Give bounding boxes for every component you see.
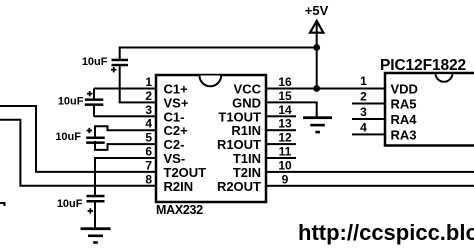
svg-text:R2IN: R2IN [164,179,194,194]
wire stub at left edge (cut off) [0,203,5,206]
U1 pin name C1- [164,109,185,124]
U1 pin name VCC [234,82,262,97]
svg-text:R1IN: R1IN [231,123,261,138]
pin 13 label [278,117,292,131]
wire pin4 C2+ to capacitor C3 (with jog) [95,126,156,137]
U2 pin 2 label [360,90,367,104]
wire pin7 T2OUT from left edge [0,106,156,172]
capacitor C3 10uF (pins 4-5) [86,128,105,144]
U1 pin name C2- [164,137,185,152]
U2 pin 3 label [360,105,367,119]
IC U2 PIC12F1822 body [385,73,474,146]
U1 pin name VS+ [164,95,189,110]
pin 5 label [145,131,152,145]
wire +5V vertical [316,22,318,89]
pin 11 label [279,145,292,159]
svg-text:T1IN: T1IN [233,151,261,166]
svg-text:10uF: 10uF [82,56,108,68]
wire pin2 VS+ to capacitor C2 lead [119,101,156,103]
wire pin10 T2IN to right edge [266,171,474,173]
watermark text http://ccspicc.blo [298,220,474,245]
pin 7 label [145,158,152,172]
svg-text:3: 3 [145,103,152,117]
node junction +5V / VCC [313,85,320,92]
svg-text:C2-: C2- [164,137,185,152]
pin 16 label [278,75,292,89]
U2 pin 1 label [360,74,367,88]
svg-text:13: 13 [278,117,292,131]
IC U1 label MAX232 [156,203,203,217]
svg-text:C2+: C2+ [164,123,189,138]
svg-text:4: 4 [145,117,152,131]
svg-text:T1OUT: T1OUT [218,109,261,124]
wire pin12 R1OUT stub [266,143,296,145]
wire pin16 VCC to PIC VDD [266,88,385,90]
svg-text:10uF: 10uF [58,96,84,108]
U2 pin name RA4 [391,112,418,127]
svg-text:8: 8 [145,172,152,186]
wire +5V rail to capacitor C2 [119,47,318,49]
svg-text:MAX232: MAX232 [156,203,203,217]
svg-text:1: 1 [145,75,152,89]
svg-text:10uF: 10uF [57,198,83,210]
capacitor C4 10uF (VS- to ground) [87,195,105,228]
U2 pin name RA5 [391,97,417,112]
pin 2 label [145,89,152,103]
svg-text:11: 11 [279,145,292,159]
U1 pin name VS- [164,151,186,166]
pin 9 label [282,172,289,186]
pin 3 label [145,103,152,117]
svg-text:C1+: C1+ [164,82,189,97]
svg-text:2: 2 [360,90,367,104]
U2 pin name RA3 [391,127,417,142]
U1 pin name GND [232,95,261,110]
svg-text:2: 2 [145,89,152,103]
U1 pin name T1IN [233,151,261,166]
svg-text:1: 1 [360,74,367,88]
node junction +5V / cap rail [313,44,320,51]
U1 pin name R1OUT [217,137,261,152]
wire pin1 C1+ to capacitor C1 [94,88,156,90]
wire pin5 C2- to capacitor C3 (with jog) [95,141,156,150]
pin 4 label [145,117,152,131]
svg-text:4: 4 [360,120,367,134]
svg-text:RA4: RA4 [391,112,418,127]
svg-text:PIC12F1822: PIC12F1822 [380,57,466,74]
U1 pin name T2OUT [164,165,207,180]
svg-text:R2OUT: R2OUT [217,179,261,194]
svg-text:RA3: RA3 [391,127,417,142]
pin 15 label [278,89,292,103]
value label 10uF (C1) [58,96,84,108]
pin 10 label [278,158,292,172]
pin 12 label [278,131,292,145]
U1 pin name C2+ [164,123,189,138]
U1 pin name R1IN [231,123,261,138]
svg-text:VDD: VDD [391,82,418,97]
svg-text:VS+: VS+ [164,95,189,110]
svg-text:12: 12 [278,131,292,145]
pin 14 label [278,103,292,117]
U1 pin name T1OUT [218,109,261,124]
ground (below C4) [81,227,111,244]
U2 pin name VDD [391,82,418,97]
svg-text:6: 6 [145,145,152,159]
svg-text:VS-: VS- [164,151,186,166]
U2 pin 4 label [360,120,367,134]
pin 6 label [145,145,152,159]
pin 1 label [145,75,152,89]
svg-text:+5V: +5V [305,3,329,18]
svg-text:T2OUT: T2OUT [164,165,207,180]
wire pin3 C1- to capacitor C1 [94,115,156,117]
svg-text:http://ccspicc.blo: http://ccspicc.blo [298,220,474,245]
power label +5V [305,3,329,18]
ground (pin 15) [303,116,332,133]
IC U2 label PIC12F1822 [380,57,466,74]
svg-text:5: 5 [145,131,152,145]
wire pin11 T1IN stub [266,157,296,159]
svg-text:GND: GND [232,95,261,110]
svg-text:VCC: VCC [234,82,262,97]
wire pin6 VS- to capacitor C4 [95,158,156,196]
IC U1 MAX232 body [156,75,266,202]
wire pin9 R2OUT to right edge [266,185,474,187]
wire pin8 R2IN from left edge [0,120,156,186]
wire pin14 T1OUT stub [266,115,296,117]
wire U2 pin2 RA5 stub [352,103,385,105]
svg-text:10: 10 [278,158,292,172]
U1 pin name T2IN [233,165,261,180]
capacitor C1 10uF (pins 1-3) [85,89,104,117]
U1 pin name R2IN [164,179,194,194]
wire U2 pin3 RA4 stub [352,118,385,120]
svg-text:14: 14 [278,103,292,117]
power +5V symbol [310,21,323,33]
svg-text:T2IN: T2IN [233,165,261,180]
svg-text:10uF: 10uF [55,131,81,143]
svg-text:16: 16 [278,75,292,89]
svg-text:R1OUT: R1OUT [217,137,261,152]
svg-text:9: 9 [282,172,289,186]
svg-text:C1-: C1- [164,109,185,124]
pin 8 label [145,172,152,186]
svg-text:15: 15 [278,89,292,103]
svg-text:7: 7 [145,158,152,172]
wire pin13 R1IN stub [266,129,296,131]
wire pin15 GND to ground [266,102,317,117]
capacitor C2 10uF (VS+ to +5V) [111,48,128,103]
wire U2 pin4 RA3 stub [352,133,385,135]
svg-text:3: 3 [360,105,367,119]
value label 10uF (C2) [82,56,108,68]
U1 pin name C1+ [164,82,189,97]
U1 pin name R2OUT [217,179,261,194]
value label 10uF (C3) [55,131,81,143]
value label 10uF (C4) [57,198,83,210]
svg-text:RA5: RA5 [391,97,417,112]
